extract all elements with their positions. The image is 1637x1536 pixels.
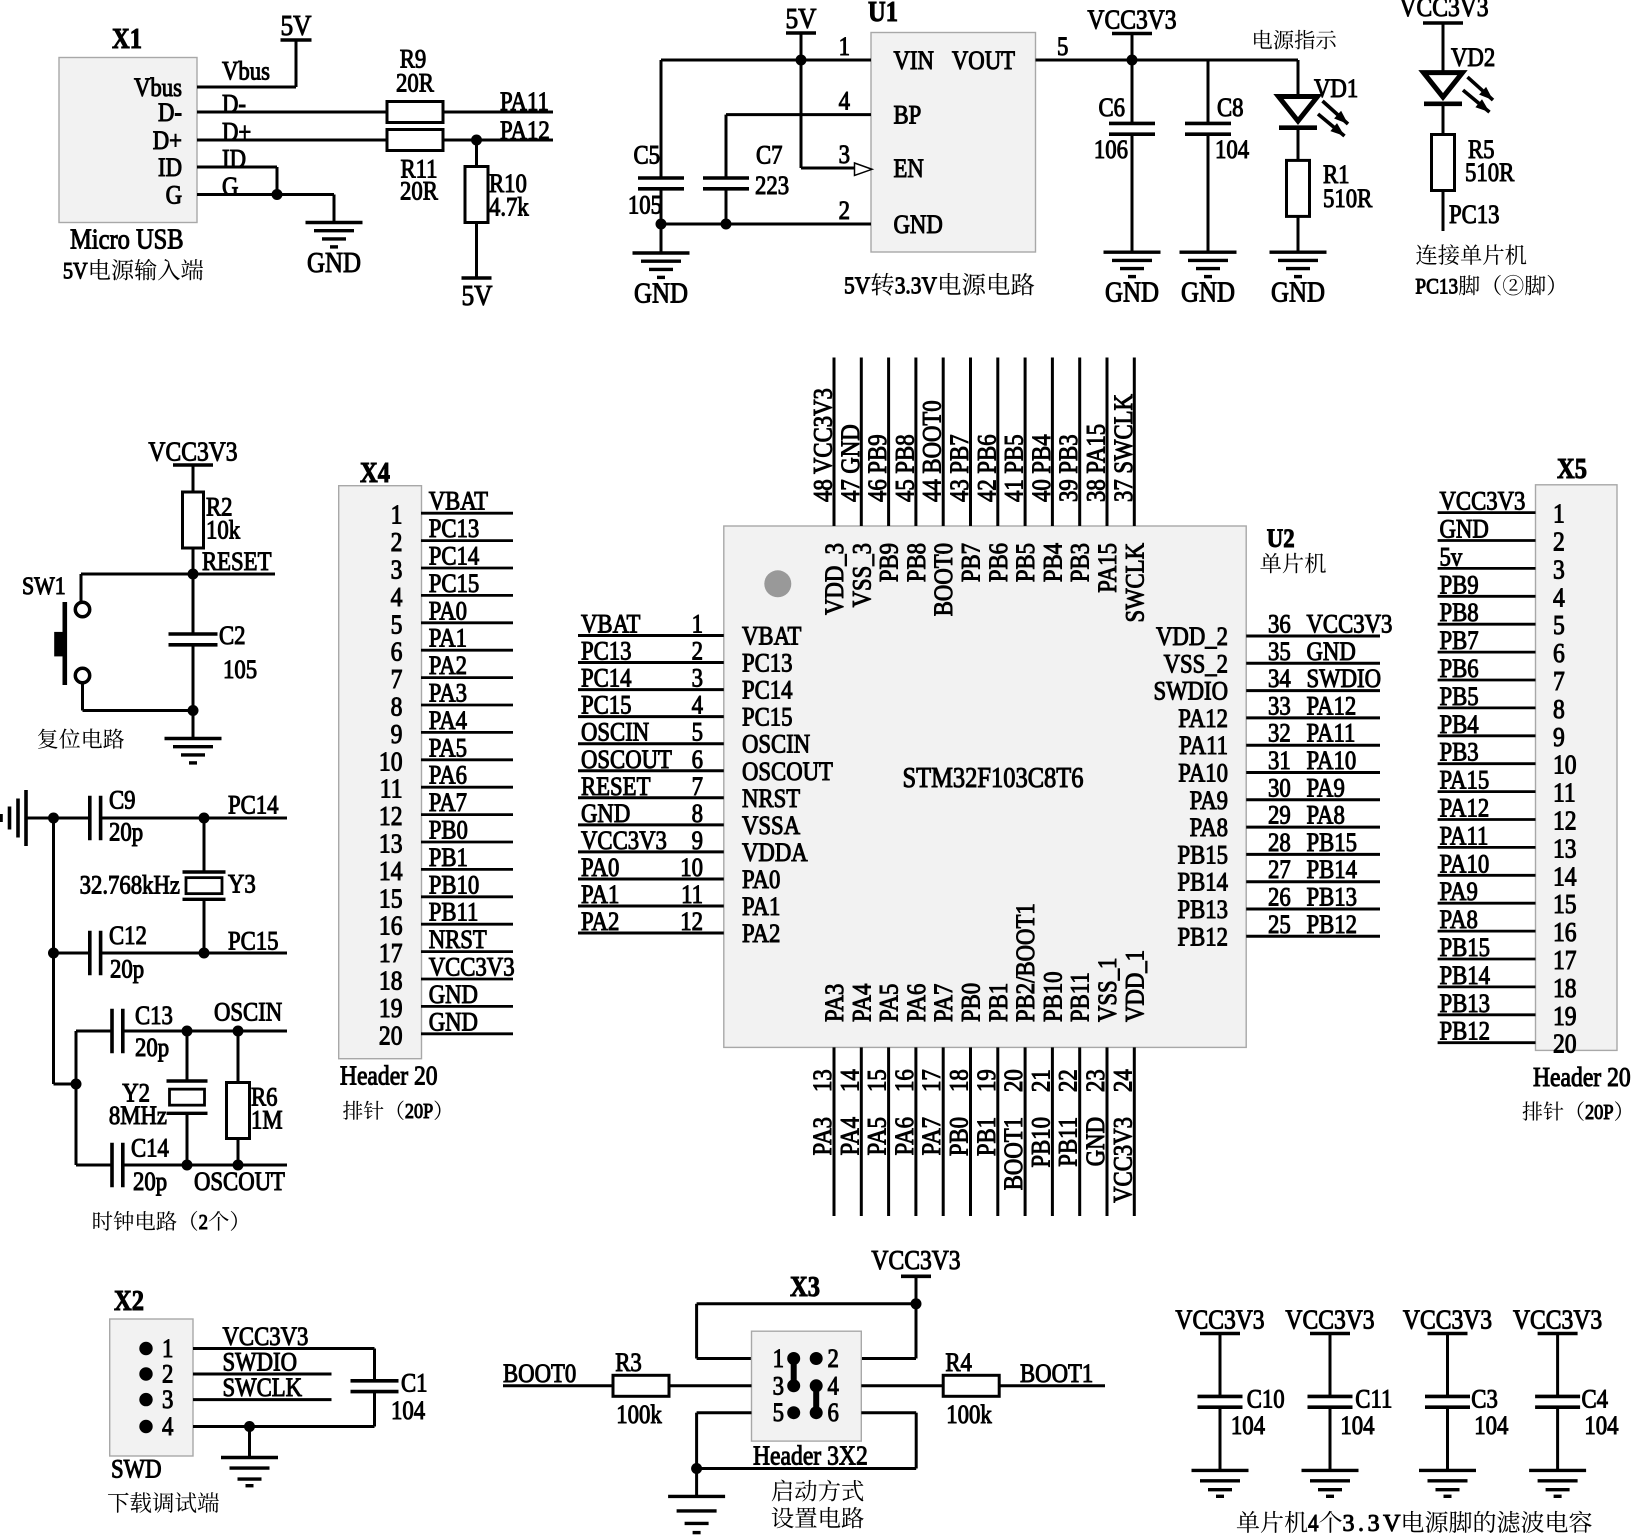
svg-text:18: 18	[1553, 973, 1577, 1003]
svg-text:4: 4	[1553, 583, 1565, 613]
svg-text:G: G	[166, 181, 182, 210]
svg-text:PB5: PB5	[1012, 543, 1041, 582]
svg-text:5V: 5V	[63, 258, 88, 284]
svg-text:2: 2	[1553, 527, 1565, 557]
svg-text:8: 8	[692, 799, 703, 828]
svg-text:VBAT: VBAT	[581, 610, 640, 639]
svg-text:C13: C13	[135, 1002, 173, 1031]
svg-text:5: 5	[1057, 33, 1068, 62]
svg-text:PA8: PA8	[1440, 906, 1478, 935]
svg-text:PB9: PB9	[1440, 571, 1479, 600]
svg-text:31: 31	[1268, 747, 1291, 776]
svg-text:X3: X3	[790, 1272, 820, 1303]
svg-text:VDD_2: VDD_2	[1156, 623, 1228, 652]
svg-text:PC14: PC14	[429, 542, 480, 571]
svg-text:PA11: PA11	[500, 88, 549, 117]
svg-text:36: 36	[1268, 610, 1291, 639]
svg-text:20p: 20p	[133, 1168, 167, 1197]
svg-text:PB6: PB6	[1440, 655, 1479, 684]
svg-text:5v: 5v	[1440, 543, 1463, 572]
svg-text:5: 5	[391, 610, 403, 640]
svg-text:PB3: PB3	[1066, 543, 1095, 582]
svg-text:PB3: PB3	[1440, 738, 1479, 767]
svg-text:PA5: PA5	[863, 1117, 892, 1155]
svg-text:C8: C8	[1217, 94, 1244, 123]
svg-text:104: 104	[1340, 1412, 1374, 1441]
svg-text:20: 20	[1000, 1069, 1029, 1092]
svg-text:BP: BP	[894, 101, 922, 130]
svg-text:4: 4	[839, 87, 850, 116]
svg-text:PA3: PA3	[821, 984, 850, 1022]
svg-text:VSS_3: VSS_3	[848, 543, 877, 607]
svg-text:PC13: PC13	[429, 515, 480, 544]
svg-text:1: 1	[692, 610, 703, 639]
svg-text:C3: C3	[1471, 1385, 1498, 1414]
svg-text:SWCLK: SWCLK	[1121, 543, 1150, 623]
svg-text:1: 1	[1553, 499, 1565, 529]
svg-text:PA9: PA9	[1440, 878, 1478, 907]
svg-text:43 PB7: 43 PB7	[946, 434, 975, 502]
svg-text:7: 7	[692, 772, 703, 801]
svg-text:SWDIO: SWDIO	[1307, 665, 1382, 694]
svg-text:PA8: PA8	[1307, 801, 1345, 830]
svg-text:BOOT1: BOOT1	[1020, 1360, 1093, 1389]
svg-text:223: 223	[755, 172, 789, 201]
svg-text:15: 15	[1553, 890, 1577, 920]
svg-text:14: 14	[836, 1069, 865, 1092]
svg-text:VCC3V3: VCC3V3	[1285, 1305, 1374, 1335]
svg-text:6: 6	[391, 637, 403, 667]
svg-text:7: 7	[1553, 667, 1565, 697]
svg-text:4: 4	[1308, 1510, 1318, 1536]
svg-text:PA0: PA0	[429, 597, 467, 626]
svg-text:14: 14	[1553, 862, 1577, 892]
svg-text:PC15: PC15	[742, 703, 793, 732]
svg-text:6: 6	[692, 745, 703, 774]
svg-text:10: 10	[680, 854, 703, 883]
svg-text:VCC3V3: VCC3V3	[871, 1246, 960, 1276]
svg-text:PA1: PA1	[581, 881, 619, 910]
svg-text:2: 2	[692, 637, 703, 666]
svg-text:BOOT0: BOOT0	[503, 1360, 576, 1389]
svg-text:PA3: PA3	[809, 1117, 838, 1155]
svg-text:PB0: PB0	[957, 983, 986, 1022]
svg-text:PA7: PA7	[918, 1117, 947, 1155]
svg-text:10: 10	[379, 747, 403, 777]
svg-text:U1: U1	[868, 0, 898, 27]
svg-text:16: 16	[891, 1069, 920, 1092]
svg-text:GND: GND	[1440, 515, 1489, 544]
svg-text:15: 15	[863, 1069, 892, 1092]
svg-text:38 PA15: 38 PA15	[1082, 424, 1111, 502]
svg-text:C5: C5	[633, 141, 660, 170]
svg-text:19: 19	[1553, 1001, 1577, 1031]
svg-text:NRST: NRST	[429, 926, 487, 955]
svg-text:Micro USB: Micro USB	[70, 224, 184, 255]
svg-text:PB12: PB12	[1440, 1017, 1491, 1046]
svg-text:9: 9	[391, 719, 403, 749]
svg-text:510R: 510R	[1465, 159, 1515, 188]
svg-text:20P: 20P	[405, 1101, 433, 1123]
svg-text:105: 105	[223, 656, 257, 685]
svg-text:24: 24	[1109, 1069, 1138, 1092]
svg-text:BOOT1: BOOT1	[1000, 1117, 1029, 1190]
svg-text:OSCIN: OSCIN	[581, 718, 650, 747]
svg-text:PB8: PB8	[903, 543, 932, 582]
svg-text:3: 3	[839, 141, 850, 170]
svg-text:46 PB9: 46 PB9	[864, 434, 893, 502]
svg-text:PB4: PB4	[1039, 543, 1068, 582]
svg-text:PA12: PA12	[1440, 794, 1490, 823]
svg-text:D+: D+	[153, 127, 182, 156]
svg-text:5V: 5V	[280, 9, 311, 41]
svg-text:VSSA: VSSA	[742, 811, 800, 840]
svg-text:PA6: PA6	[429, 761, 467, 790]
svg-text:PB12: PB12	[1177, 923, 1228, 952]
svg-text:20P: 20P	[1585, 1101, 1614, 1124]
svg-text:GND: GND	[1307, 637, 1356, 666]
svg-text:PA15: PA15	[1094, 543, 1123, 593]
svg-text:X4: X4	[360, 458, 390, 489]
svg-text:20p: 20p	[109, 818, 143, 847]
svg-text:41 PB5: 41 PB5	[1000, 434, 1029, 502]
svg-text:PC13: PC13	[1449, 201, 1500, 230]
svg-text:SWDIO: SWDIO	[223, 1348, 298, 1377]
svg-text:GND: GND	[634, 277, 688, 309]
svg-text:VCC3V3: VCC3V3	[223, 1323, 309, 1352]
svg-text:VCC3V3: VCC3V3	[1109, 1117, 1138, 1203]
svg-text:PA10: PA10	[1307, 747, 1357, 776]
svg-text:Y3: Y3	[228, 870, 256, 899]
svg-text:17: 17	[918, 1069, 947, 1092]
svg-text:PB12: PB12	[1307, 910, 1358, 939]
svg-text:PB14: PB14	[1177, 868, 1228, 897]
svg-text:39 PB3: 39 PB3	[1055, 434, 1084, 502]
svg-text:RESET: RESET	[202, 548, 272, 577]
svg-text:SWDIO: SWDIO	[1153, 677, 1228, 706]
svg-text:PB15: PB15	[1177, 841, 1228, 870]
svg-text:VSS_1: VSS_1	[1094, 958, 1123, 1022]
svg-text:PB8: PB8	[1440, 599, 1479, 628]
svg-text:1M: 1M	[251, 1106, 283, 1135]
svg-text:PB9: PB9	[875, 543, 904, 582]
svg-text:2: 2	[391, 528, 403, 558]
svg-text:PB13: PB13	[1177, 896, 1228, 925]
svg-text:PA11: PA11	[1179, 732, 1228, 761]
svg-text:29: 29	[1268, 801, 1291, 830]
svg-text:PA5: PA5	[875, 984, 904, 1022]
svg-text:PA3: PA3	[429, 679, 467, 708]
svg-text:OSCIN: OSCIN	[742, 730, 811, 759]
svg-text:19: 19	[379, 993, 403, 1023]
svg-text:PB0: PB0	[945, 1117, 974, 1156]
svg-text:26: 26	[1268, 883, 1291, 912]
svg-text:104: 104	[391, 1397, 425, 1426]
svg-text:GND: GND	[581, 799, 630, 828]
svg-text:35: 35	[1268, 637, 1291, 666]
svg-text:VBAT: VBAT	[742, 622, 801, 651]
svg-text:GND: GND	[1271, 276, 1325, 308]
svg-text:PB1: PB1	[429, 844, 468, 873]
svg-text:105: 105	[628, 191, 662, 220]
svg-text:3: 3	[692, 664, 703, 693]
svg-text:PA10: PA10	[1178, 759, 1228, 788]
svg-text:17: 17	[379, 939, 403, 969]
svg-text:16: 16	[379, 911, 403, 941]
svg-text:VD1: VD1	[1314, 75, 1358, 104]
svg-text:PB0: PB0	[429, 816, 468, 845]
svg-text:18: 18	[379, 966, 403, 996]
svg-text:PA9: PA9	[1307, 774, 1345, 803]
svg-text:5V: 5V	[785, 2, 816, 34]
svg-text:5V: 5V	[461, 279, 492, 311]
svg-text:C7: C7	[756, 141, 783, 170]
svg-text:VBAT: VBAT	[429, 487, 488, 516]
svg-text:10k: 10k	[206, 516, 241, 545]
svg-text:PA12: PA12	[1178, 705, 1228, 734]
svg-text:21: 21	[1027, 1069, 1056, 1092]
svg-text:32: 32	[1268, 719, 1291, 748]
svg-text:C2: C2	[219, 622, 246, 651]
svg-text:C9: C9	[109, 786, 136, 815]
svg-text:GND: GND	[429, 981, 478, 1010]
svg-text:ID: ID	[222, 145, 246, 174]
svg-text:C11: C11	[1355, 1385, 1392, 1414]
svg-text:18: 18	[945, 1069, 974, 1092]
svg-text:PC15: PC15	[228, 927, 279, 956]
svg-text:GND: GND	[1181, 276, 1235, 308]
svg-text:RESET: RESET	[581, 772, 651, 801]
svg-text:PB13: PB13	[1307, 883, 1358, 912]
svg-text:VCC3V3: VCC3V3	[1513, 1305, 1602, 1335]
svg-text:PB10: PB10	[1027, 1117, 1056, 1168]
svg-text:11: 11	[380, 774, 403, 804]
svg-text:100k: 100k	[946, 1401, 992, 1430]
svg-text:PB11: PB11	[1054, 1117, 1083, 1167]
svg-text:GND: GND	[1082, 1117, 1111, 1166]
svg-text:VDD_1: VDD_1	[1121, 950, 1150, 1022]
svg-text:1: 1	[391, 500, 403, 530]
svg-text:VCC3V3: VCC3V3	[1175, 1305, 1264, 1335]
svg-text:8MHz: 8MHz	[109, 1102, 167, 1131]
svg-text:OSCOUT: OSCOUT	[194, 1168, 285, 1197]
svg-text:VCC3V3: VCC3V3	[1399, 0, 1488, 22]
svg-text:PB7: PB7	[1440, 627, 1479, 656]
svg-text:C6: C6	[1098, 94, 1125, 123]
svg-text:R3: R3	[615, 1349, 642, 1378]
svg-text:42 PB6: 42 PB6	[973, 434, 1002, 502]
svg-text:NRST: NRST	[742, 784, 800, 813]
svg-text:19: 19	[972, 1069, 1001, 1092]
svg-text:PA12: PA12	[1307, 692, 1357, 721]
svg-text:C1: C1	[401, 1369, 428, 1398]
svg-text:37 SWCLK: 37 SWCLK	[1109, 394, 1138, 502]
svg-text:6: 6	[1553, 639, 1565, 669]
svg-text:11: 11	[681, 881, 703, 910]
svg-text:44 BOOT0: 44 BOOT0	[918, 400, 947, 502]
svg-text:C4: C4	[1582, 1385, 1609, 1414]
svg-text:2: 2	[839, 197, 850, 226]
svg-text:ID: ID	[158, 154, 182, 183]
svg-text:PC13: PC13	[1415, 275, 1458, 298]
svg-text:VCC3V3: VCC3V3	[148, 437, 237, 467]
svg-text:OSCOUT: OSCOUT	[581, 745, 672, 774]
svg-text:PB14: PB14	[1440, 962, 1491, 991]
svg-text:48 VCC3V3: 48 VCC3V3	[809, 388, 838, 502]
svg-text:PC13: PC13	[581, 637, 632, 666]
svg-text:VD2: VD2	[1451, 44, 1495, 73]
svg-text:22: 22	[1054, 1069, 1083, 1092]
svg-text:PB15: PB15	[1307, 829, 1358, 858]
svg-text:47 GND: 47 GND	[836, 424, 865, 502]
svg-text:VCC3V3: VCC3V3	[581, 827, 667, 856]
svg-text:20R: 20R	[396, 69, 435, 98]
svg-text:3: 3	[391, 555, 403, 585]
svg-text:SWCLK: SWCLK	[223, 1374, 303, 1403]
svg-text:PA15: PA15	[1440, 766, 1490, 795]
svg-text:PA7: PA7	[930, 984, 959, 1022]
svg-text:C12: C12	[109, 922, 147, 951]
svg-text:C10: C10	[1247, 1385, 1285, 1414]
svg-text:PA1: PA1	[429, 624, 467, 653]
svg-text:3: 3	[773, 1372, 784, 1401]
svg-text:20R: 20R	[400, 177, 439, 206]
svg-text:PA4: PA4	[848, 984, 877, 1022]
svg-text:3: 3	[162, 1386, 173, 1415]
svg-text:11: 11	[1553, 778, 1576, 808]
svg-text:1: 1	[773, 1345, 784, 1374]
svg-text:25: 25	[1268, 910, 1291, 939]
svg-text:6: 6	[828, 1399, 839, 1428]
svg-text:PA2: PA2	[742, 920, 780, 949]
svg-text:4: 4	[692, 691, 703, 720]
svg-text:PA8: PA8	[1190, 814, 1228, 843]
svg-text:D-: D-	[222, 90, 246, 119]
svg-text:PC14: PC14	[742, 676, 793, 705]
svg-text:28: 28	[1268, 829, 1291, 858]
svg-text:17: 17	[1553, 946, 1577, 976]
svg-text:40 PB4: 40 PB4	[1028, 434, 1057, 502]
svg-text:VCC3V3: VCC3V3	[429, 953, 515, 982]
svg-text:VIN: VIN	[894, 47, 935, 76]
svg-text:VCC3V3: VCC3V3	[1440, 487, 1526, 516]
svg-text:104: 104	[1474, 1412, 1508, 1441]
svg-text:PA0: PA0	[581, 854, 619, 883]
svg-text:VOUT: VOUT	[952, 47, 1015, 76]
svg-text:PB15: PB15	[1440, 934, 1491, 963]
svg-text:8: 8	[391, 692, 403, 722]
svg-text:13: 13	[1553, 834, 1577, 864]
svg-text:5V: 5V	[844, 271, 871, 299]
svg-text:PB1: PB1	[984, 983, 1013, 1022]
svg-text:9: 9	[692, 827, 703, 856]
svg-text:PA6: PA6	[891, 1117, 920, 1155]
svg-text:PB10: PB10	[1039, 971, 1068, 1022]
svg-text:13: 13	[809, 1069, 838, 1092]
svg-text:PB11: PB11	[1066, 972, 1095, 1022]
svg-text:2: 2	[828, 1345, 839, 1374]
svg-text:SW1: SW1	[22, 573, 66, 601]
svg-text:GND: GND	[894, 211, 943, 240]
svg-text:3.3V: 3.3V	[1343, 1511, 1402, 1536]
svg-text:VCC3V3: VCC3V3	[1087, 5, 1176, 35]
svg-text:R4: R4	[945, 1349, 972, 1378]
svg-text:U2: U2	[1267, 525, 1295, 554]
svg-text:33: 33	[1268, 692, 1291, 721]
svg-text:5: 5	[773, 1399, 784, 1428]
svg-text:VDD_3: VDD_3	[821, 543, 850, 615]
svg-text:12: 12	[1553, 806, 1577, 836]
svg-text:Vbus: Vbus	[222, 57, 270, 86]
svg-text:PB6: PB6	[984, 543, 1013, 582]
svg-text:X5: X5	[1557, 454, 1587, 485]
svg-text:PB7: PB7	[957, 543, 986, 582]
svg-text:SWD: SWD	[111, 1455, 162, 1484]
svg-text:34: 34	[1268, 665, 1291, 694]
svg-text:2: 2	[162, 1360, 173, 1389]
svg-text:20p: 20p	[135, 1034, 169, 1063]
svg-text:104: 104	[1584, 1412, 1618, 1441]
svg-text:20: 20	[379, 1021, 403, 1051]
svg-text:PA0: PA0	[742, 866, 780, 895]
svg-text:PA4: PA4	[836, 1117, 865, 1155]
svg-text:20: 20	[1553, 1029, 1577, 1059]
svg-text:7: 7	[391, 665, 403, 695]
svg-text:PB11: PB11	[429, 898, 479, 927]
svg-text:D+: D+	[222, 118, 251, 147]
svg-text:27: 27	[1268, 856, 1291, 885]
svg-text:PB10: PB10	[429, 871, 480, 900]
svg-text:PA4: PA4	[429, 707, 467, 736]
svg-text:EN: EN	[894, 155, 925, 184]
svg-text:104: 104	[1215, 136, 1249, 165]
svg-text:30: 30	[1268, 774, 1291, 803]
svg-text:PA11: PA11	[1307, 719, 1356, 748]
svg-text:OSCOUT: OSCOUT	[742, 757, 833, 786]
svg-text:PA2: PA2	[581, 908, 619, 937]
svg-text:PB2/BOOT1: PB2/BOOT1	[1012, 903, 1041, 1022]
svg-text:VDDA: VDDA	[742, 839, 808, 868]
svg-text:100k: 100k	[616, 1401, 662, 1430]
svg-text:4: 4	[828, 1372, 839, 1401]
svg-text:VSS_2: VSS_2	[1164, 650, 1228, 679]
svg-text:PC14: PC14	[581, 664, 632, 693]
svg-text:23: 23	[1082, 1069, 1111, 1092]
svg-text:PB14: PB14	[1307, 856, 1358, 885]
svg-text:4: 4	[162, 1413, 173, 1442]
svg-text:20p: 20p	[110, 955, 144, 984]
svg-text:PB5: PB5	[1440, 683, 1479, 712]
svg-text:GND: GND	[1105, 276, 1159, 308]
svg-text:G: G	[222, 173, 238, 202]
svg-text:510R: 510R	[1323, 185, 1373, 214]
svg-text:14: 14	[379, 856, 403, 886]
svg-text:32.768kHz: 32.768kHz	[80, 871, 181, 900]
svg-text:1: 1	[162, 1335, 173, 1364]
svg-text:VCC3V3: VCC3V3	[1307, 610, 1393, 639]
svg-text:BOOT0: BOOT0	[930, 543, 959, 616]
svg-text:VCC3V3: VCC3V3	[1403, 1305, 1492, 1335]
svg-text:4.7k: 4.7k	[489, 193, 530, 222]
svg-text:X1: X1	[112, 24, 142, 55]
svg-text:PC13: PC13	[742, 649, 793, 678]
svg-text:3.3V: 3.3V	[895, 271, 938, 299]
svg-text:PA1: PA1	[742, 893, 780, 922]
svg-text:9: 9	[1553, 722, 1565, 752]
svg-text:PA11: PA11	[1440, 822, 1489, 851]
svg-text:PC15: PC15	[429, 570, 480, 599]
svg-text:PA6: PA6	[903, 984, 932, 1022]
